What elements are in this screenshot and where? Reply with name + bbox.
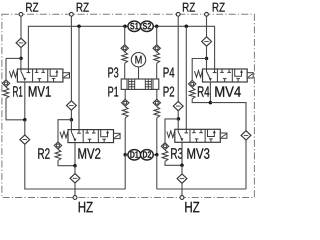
wire: junction to diamond <box>181 165 183 174</box>
wire: P1 line to left HZ rail <box>124 155 126 189</box>
label MV3 <box>187 148 209 159</box>
wire: R1 branch down <box>5 58 7 80</box>
wire: R2 to lower junction <box>58 161 75 166</box>
junction MV1-bottom/R1 <box>23 118 27 122</box>
valve MV1 (3-position, spring left, solenoid right) <box>9 69 69 82</box>
label R4 <box>198 86 210 96</box>
junction on rail to MV2 port B <box>77 25 81 29</box>
wire: P3 feed from rail <box>124 26 126 45</box>
wire: diamond down to right HZ rail <box>245 140 247 189</box>
label RZ2 <box>77 3 89 12</box>
label MV4 <box>215 86 240 96</box>
wire: block to P1 check valve <box>124 89 126 99</box>
wire: block to P2 check valve <box>156 89 158 99</box>
wire: P2 down to D-line junction <box>156 118 158 155</box>
wire: right HZ rail <box>157 188 246 190</box>
wire: R2 branch horizontal <box>58 120 71 143</box>
label R3 <box>171 148 182 159</box>
wire: P3 check valve to block <box>124 63 126 79</box>
junction P2/D-line <box>155 153 159 157</box>
metering diamond on MV3 return <box>177 174 187 183</box>
label P2 <box>164 87 175 97</box>
metering diamond on MV4 return <box>241 131 251 140</box>
wire: R4 to bottom collector <box>192 99 210 103</box>
metering diamond on RZ3 drop <box>173 101 183 110</box>
sensor S2 <box>141 21 154 31</box>
wire: diamond down to HZ2 port <box>181 183 183 195</box>
wire: MV1 bottom port down <box>24 82 26 120</box>
metering diamond on MV2 return <box>70 174 80 183</box>
port HZ2 connection circle <box>180 196 184 200</box>
wire: P1 down to D-line junction <box>124 118 126 155</box>
check valve on P2 line <box>153 99 160 118</box>
label P4 <box>164 68 175 78</box>
junction MV4-bottom/R4 <box>209 101 213 105</box>
wire: diamond down to HZ1 port <box>74 183 76 196</box>
junction RZ3/R3/MV3-A <box>177 117 181 121</box>
label R2 <box>38 148 49 158</box>
port RZ2 connection circle <box>70 12 74 16</box>
wire: junction to diamond <box>24 120 26 135</box>
label RZ4 <box>213 3 225 12</box>
wire: RZ2 drop <box>70 16 72 101</box>
wire: R4 branch horizontal <box>192 59 206 81</box>
wire: diamond down to HZ rail corner <box>25 144 126 189</box>
check valve R1 (diamond + spring) <box>2 80 9 99</box>
wire: MV4 bottom port down <box>209 82 211 103</box>
junction on rail to P4 line <box>155 25 159 29</box>
junction P1/D-line <box>123 153 127 157</box>
wire: R3 branch horizontal <box>165 119 178 143</box>
check valve on P3 line <box>121 45 128 64</box>
wire: collector right and down <box>210 103 246 131</box>
wire: junction to MV3 port A <box>177 119 179 129</box>
metering diamond on RZ1 drop <box>16 38 26 47</box>
wire: MV3 bottom port down <box>181 142 183 165</box>
wire: junction to diamond <box>74 166 76 174</box>
label HZ2 <box>185 202 199 212</box>
distributor block with pistons <box>121 79 159 89</box>
wire: diamond to junction <box>20 48 22 59</box>
wire: diamond to junction <box>206 46 208 58</box>
junction RZ2/R2/MV2-A <box>70 118 74 122</box>
valve MV3 (3-position, spring left, solenoid right) <box>167 129 227 142</box>
motor M <box>131 53 145 67</box>
junction RZ1/R1/MV1-A <box>19 57 23 61</box>
wire: RZ4 drop <box>206 16 208 37</box>
wire: left HZ rail <box>25 188 126 190</box>
wire: P4 feed from rail <box>156 26 158 45</box>
metering diamond on RZ4 drop <box>202 37 212 46</box>
port RZ4 connection circle <box>205 12 209 16</box>
check valve on P4 line <box>153 45 160 64</box>
label P3 <box>108 67 118 77</box>
wire: supply rail from MV1 port B across to MV4 port B <box>28 26 214 69</box>
wire: diamond to junction <box>177 111 179 119</box>
wire: rail drop to MV2 port B <box>78 26 80 129</box>
port HZ1 connection circle <box>73 196 77 200</box>
sensor D2 <box>141 150 154 160</box>
wire: junction to MV1 port A <box>20 58 22 69</box>
wire: D-line <box>125 154 157 156</box>
port RZ3 connection circle <box>176 12 180 16</box>
wire: junction to MV2 port A <box>70 120 72 130</box>
wire: R1 branch horizontal <box>6 57 21 59</box>
junction RZ4/R4/MV4-A <box>205 57 209 61</box>
metering diamond on MV1 return <box>20 135 30 144</box>
label RZ3 <box>183 3 195 12</box>
wire: junction to MV4 port A <box>206 59 208 70</box>
wire: P4 check valve to block <box>156 63 158 79</box>
check valve on P1 line <box>122 99 129 118</box>
junction on rail to P3 line <box>123 25 127 29</box>
sensor D1 <box>128 150 141 160</box>
wire: diamond to junction <box>70 110 72 120</box>
junction on rail to MV3 port B <box>185 25 189 29</box>
wire: motor shaft to block <box>138 67 140 79</box>
label R1 <box>13 86 22 96</box>
wire: R3 to lower junction <box>165 161 182 165</box>
wire: P2 line to right HZ rail <box>156 155 158 189</box>
label MV1 <box>29 86 51 96</box>
check valve R3 (diamond + spring) <box>161 143 168 162</box>
valve MV4 (3-position, spring left, solenoid right) <box>195 69 254 82</box>
junction MV3-bottom/R3 <box>180 164 184 168</box>
check valve R2 (diamond + spring) <box>54 142 61 161</box>
wire: R1 to lower junction <box>6 98 25 119</box>
wire: RZ3 drop <box>177 16 179 101</box>
label RZ1 <box>26 3 38 12</box>
sensor S1 <box>128 21 141 31</box>
label MV2 <box>78 148 100 158</box>
junction MV2-bottom/R2 <box>73 164 77 168</box>
wire: MV2 bottom port down <box>74 143 76 166</box>
wire: RZ1 drop <box>20 16 22 38</box>
label HZ1 <box>79 202 93 212</box>
label P1 <box>108 87 118 97</box>
wire: rail drop to MV3 port B <box>185 26 187 129</box>
metering diamond on RZ2 drop <box>67 101 77 110</box>
valve MV2 (3-position, spring left, solenoid right) <box>60 130 120 143</box>
check valve R4 (diamond + spring) <box>189 80 196 99</box>
port RZ1 connection circle <box>19 12 23 16</box>
enclosure boundary (dash-dot frame) <box>2 14 255 197</box>
